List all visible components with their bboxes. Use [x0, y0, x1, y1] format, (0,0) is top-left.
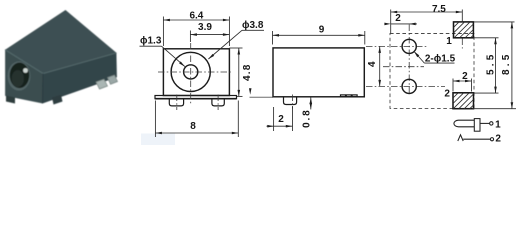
- side view: foot: [284, 97, 297, 105]
- photo: top face: [6, 11, 117, 74]
- footprint: hole 1: [402, 39, 416, 53]
- dimension 7.5: [391, 4, 463, 33]
- front view: left foot: [169, 99, 183, 106]
- footprint: pad 1 centerline stub: [461, 39, 463, 49]
- side view: body outline: [273, 48, 364, 97]
- dimension 6.4: [163, 11, 229, 46]
- side view: pin tab 2: [346, 95, 351, 97]
- dimension 2 (pad width): [453, 71, 472, 91]
- dimension 9: [273, 25, 365, 45]
- dimension 2 (side view): [267, 106, 293, 131]
- footprint: vertical hole centerline: [408, 25, 410, 96]
- footprint: middle centerline: [383, 66, 424, 68]
- photo: barrel hole: [8, 61, 31, 90]
- svg-text:ϕ3.8: ϕ3.8: [242, 20, 264, 31]
- photo: metal pin 2: [108, 75, 118, 84]
- svg-text:0.8: 0.8: [302, 109, 313, 128]
- schematic: pin 1 terminal: [490, 122, 493, 125]
- photo: middle bottom foot: [52, 95, 63, 105]
- side view: foot pin centerline: [292, 95, 294, 109]
- svg-text:2-ϕ1.5: 2-ϕ1.5: [425, 54, 456, 65]
- footprint: pad 1 hatched: [454, 22, 474, 38]
- svg-text:2: 2: [395, 13, 401, 24]
- dimension 5.5: [472, 38, 499, 93]
- svg-text:2: 2: [278, 114, 284, 125]
- svg-text:ϕ1.3: ϕ1.3: [140, 36, 162, 47]
- svg-text:4: 4: [367, 61, 378, 67]
- footprint: hole 2 centerline: [366, 85, 445, 87]
- front view: right foot: [212, 99, 224, 106]
- svg-text:6.4: 6.4: [189, 11, 203, 22]
- schematic: switch contact: [458, 135, 463, 141]
- svg-text:5.5: 5.5: [485, 52, 496, 76]
- front view: body outline: [163, 49, 229, 96]
- front view: vertical centerline: [190, 43, 192, 105]
- svg-text:8: 8: [190, 121, 196, 132]
- svg-text:1: 1: [446, 36, 452, 47]
- side view: pin tab 1: [341, 95, 346, 97]
- svg-text:4.8: 4.8: [242, 64, 253, 82]
- svg-text:2: 2: [495, 134, 501, 145]
- photo: face edge highlights: [6, 50, 117, 74]
- front view: left foot centerline: [176, 95, 178, 111]
- schematic: pin 2 wire: [463, 138, 490, 140]
- front view: inner circle: [184, 65, 198, 79]
- side view: pin tab 3: [352, 95, 357, 97]
- dimension 8: [155, 101, 238, 138]
- svg-text:8.5: 8.5: [501, 52, 512, 76]
- dimension 3.9: [190, 22, 229, 42]
- dimension 4: [367, 46, 381, 86]
- svg-text:1: 1: [495, 120, 501, 131]
- schematic: collar: [474, 119, 480, 132]
- svg-text:2: 2: [462, 71, 468, 82]
- footprint: pad 2 hatched: [453, 93, 474, 109]
- label Φ3.8 with leader: [208, 20, 264, 59]
- schematic: pin 1 wire: [480, 122, 490, 124]
- schematic: pin 2 terminal: [490, 138, 493, 141]
- footprint: hole 1 centerline: [366, 45, 428, 47]
- label 2-Φ1.5 with leader: [414, 51, 456, 64]
- photo: left bottom foot: [6, 96, 15, 104]
- schematic: plug barrel: [454, 120, 475, 127]
- front view: outer circle: [171, 52, 210, 91]
- photo: right face: [43, 53, 117, 103]
- label Φ1.3 with leader: [140, 36, 185, 67]
- photo: left face with hole: [6, 50, 44, 103]
- side view: tick arrow on pcb line: [249, 88, 252, 94]
- side view: pcb surface extension line: [250, 96, 273, 98]
- svg-text:9: 9: [319, 25, 325, 36]
- photo: center pin highlight: [23, 68, 28, 73]
- dimension 0.8: [302, 98, 313, 128]
- photo: metal pin 1: [96, 79, 108, 89]
- footprint: dashed body outline: [390, 34, 474, 109]
- photo of DC jack: [6, 11, 118, 105]
- front view: flange bar: [155, 96, 237, 99]
- footprint: hole 2: [402, 79, 416, 93]
- front view: right foot centerline: [217, 95, 219, 111]
- svg-text:2: 2: [444, 88, 450, 99]
- dimension 4.8: [229, 48, 252, 96]
- front view: horizontal centerline: [158, 71, 233, 73]
- faint blue watermark smudge: [141, 134, 175, 146]
- svg-text:3.9: 3.9: [198, 22, 212, 33]
- svg-text:7.5: 7.5: [432, 4, 446, 15]
- dimension 8.5: [472, 22, 516, 109]
- dimension 2 (hole offset): [384, 13, 417, 25]
